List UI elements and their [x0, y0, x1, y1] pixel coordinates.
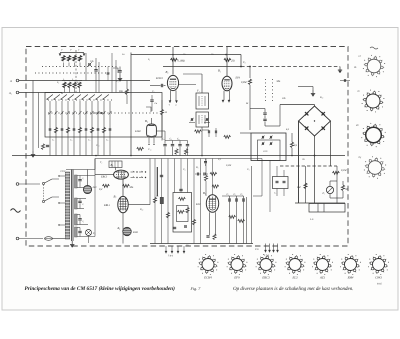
switch SK2b	[42, 200, 44, 202]
ground switch	[32, 151, 34, 155]
wire AF ladder	[154, 159, 156, 244]
resistor R13	[66, 127, 69, 133]
node target arrows row1	[131, 171, 135, 172]
wire lamp branch right	[336, 166, 338, 203]
svg-text:ECH4: ECH4	[155, 77, 163, 80]
capacitor block C26/C27	[273, 177, 289, 189]
svg-text:C₆: C₆	[162, 138, 165, 141]
switch SK2a	[42, 182, 44, 184]
inductor L5 bracket	[113, 68, 118, 73]
wire cap cluster rail	[165, 140, 188, 142]
ground aux	[312, 87, 314, 91]
diode D4	[322, 126, 325, 129]
wire arrow tap	[59, 54, 61, 56]
switch wiper 3	[61, 95, 67, 100]
capacitor C12	[61, 128, 64, 130]
socket diagram V4	[368, 161, 382, 175]
capacitor C9	[119, 67, 121, 71]
socket base EBC3	[260, 259, 272, 271]
svg-text:L.S.: L.S.	[309, 218, 314, 221]
switch wiper 5	[75, 95, 81, 100]
inductor L6 bracket	[146, 107, 151, 112]
svg-text:B₇: B₇	[114, 195, 117, 199]
inductor S6	[63, 82, 66, 88]
fuse V1	[45, 237, 53, 241]
capacitor C40	[164, 141, 166, 144]
wire vertical feeder	[85, 53, 87, 81]
wire det elbow	[265, 125, 280, 127]
wire AVC rail	[163, 66, 241, 68]
wire det right links	[261, 159, 263, 197]
svg-text:B₁₀: B₁₀	[320, 96, 323, 99]
svg-text:C₄: C₄	[116, 80, 119, 83]
socket base EL3	[289, 259, 301, 271]
wire B1 pin 2	[175, 91, 177, 101]
capacitor C52 electrolytic	[160, 197, 163, 203]
svg-text:C₁₂: C₁₂	[148, 148, 152, 151]
socket diagram V2	[366, 94, 380, 108]
wire oscillator box left	[130, 53, 132, 156]
resistor R22	[137, 147, 144, 150]
capacitor C25	[243, 196, 245, 203]
socket base EF9	[231, 259, 243, 271]
svg-text:B₆: B₆	[111, 163, 114, 167]
transformer T primary	[65, 172, 69, 239]
resistor R7	[304, 183, 307, 189]
socket eye B8	[123, 227, 131, 235]
resistor R18	[229, 215, 236, 218]
svg-text:C₁: C₁	[52, 139, 54, 142]
wire B6 left	[95, 174, 114, 176]
socket base EM4	[345, 259, 357, 271]
wire drop to band switch	[61, 93, 63, 95]
wire secondary common	[94, 175, 96, 237]
capacitor C32	[78, 218, 81, 220]
capacitor C18	[97, 128, 100, 130]
resistor R32	[210, 172, 217, 175]
capacitor C18	[214, 130, 216, 133]
resistor R21	[224, 135, 231, 138]
svg-text:C₂: C₂	[227, 193, 230, 196]
svg-text:C₄: C₄	[241, 193, 244, 196]
switch wiper 7	[89, 95, 95, 100]
wire B1 anode feed	[172, 47, 174, 75]
wire bridge top stub	[314, 105, 316, 107]
wire B5 pin 1	[148, 138, 150, 143]
switch wiper 8	[96, 95, 102, 100]
wire S top rail	[62, 80, 82, 82]
wire fuse out	[53, 238, 66, 240]
svg-text:C₈: C₈	[82, 220, 84, 223]
rectifier bridge	[299, 106, 331, 136]
capacitor C20	[160, 174, 163, 176]
wire feeder 99	[98, 62, 100, 93]
capacitor C53	[196, 173, 198, 176]
wire antenna lead	[19, 80, 150, 82]
switch contact 2	[55, 101, 57, 156]
wire aux lead	[298, 86, 313, 88]
wire bottom rail right	[295, 202, 345, 204]
svg-text:EAB2: EAB2	[134, 130, 142, 133]
socket diagram V3	[366, 127, 382, 143]
inductor S7	[68, 82, 71, 88]
wire cap drops	[229, 203, 231, 244]
capacitor C16	[85, 128, 88, 130]
capacitor C12	[263, 118, 266, 120]
switch contact 10	[103, 101, 105, 156]
wire coil top link	[60, 52, 84, 54]
svg-text:C₈: C₈	[177, 138, 180, 141]
switch contact 9	[97, 101, 99, 156]
wire earth lead	[19, 92, 62, 94]
capacitor C4	[46, 144, 49, 146]
IF can T1	[196, 93, 209, 109]
svg-text:C₆: C₆	[82, 177, 84, 180]
resistor R19	[238, 219, 245, 222]
node IF core dots	[265, 79, 267, 103]
trimmer C19b	[205, 118, 207, 121]
wire lamp branch left	[305, 166, 307, 203]
wire caps top link	[222, 195, 244, 197]
wire switch arrow	[93, 112, 103, 114]
resistor R19	[102, 127, 105, 133]
switch wiper 4	[68, 95, 74, 100]
svg-text:EF9: EF9	[233, 276, 240, 280]
svg-text:A₂: A₂	[8, 92, 12, 95]
resistor R33	[212, 185, 219, 188]
wire primary taps	[59, 175, 65, 177]
svg-text:Fig. 7: Fig. 7	[190, 286, 202, 291]
socket base ECH4	[202, 259, 214, 271]
resistor R11	[54, 127, 57, 133]
wire B7 bottom	[122, 213, 124, 244]
capacitor C50	[340, 80, 350, 82]
wire B5 top	[151, 118, 153, 124]
wire right AF verticals	[246, 197, 248, 244]
switch contact 11	[109, 101, 111, 156]
resistor R15	[78, 127, 81, 133]
svg-text:C₈: C₈	[183, 168, 186, 171]
wire B5 out	[157, 130, 166, 132]
trimmer C14	[269, 136, 271, 139]
switch contact 3	[61, 101, 63, 156]
inductor L3	[73, 56, 76, 62]
trimmer C2	[88, 63, 90, 66]
lamp F1	[326, 186, 333, 193]
capacitor C33	[78, 230, 81, 232]
wire tuning link dashed	[75, 50, 77, 93]
filter box inner	[177, 206, 189, 222]
svg-text:P.U.: P.U.	[254, 248, 260, 251]
inductor S9	[78, 82, 81, 88]
svg-text:0,1: 0,1	[218, 158, 221, 161]
svg-text:EL3: EL3	[291, 276, 298, 280]
capacitor C19c	[205, 159, 207, 161]
svg-text:A: A	[9, 80, 12, 83]
capacitor C31	[79, 199, 81, 201]
svg-text:220V: 220V	[60, 170, 66, 173]
node main HT bus	[12, 155, 345, 157]
resistor R13	[123, 184, 130, 187]
inductor box above B6	[109, 161, 122, 168]
svg-text:24': 24'	[358, 55, 362, 58]
capacitor C42	[179, 141, 181, 144]
transformer secondary 1	[75, 175, 78, 188]
wire B2 pin 2	[229, 91, 231, 100]
wire link	[253, 195, 262, 197]
capacitor C43	[187, 141, 189, 144]
wire S drops	[64, 87, 66, 93]
node junction det	[249, 66, 251, 68]
wire mains 1	[19, 183, 40, 185]
inductor L2	[67, 56, 70, 62]
wire B9 pins	[209, 212, 211, 235]
switch contact 4	[67, 101, 69, 156]
mains symbol	[11, 209, 21, 213]
inductor L1	[62, 56, 65, 62]
terminal mains 1	[16, 183, 19, 186]
svg-text:C₃: C₃	[88, 139, 90, 142]
wire secondary outs	[77, 175, 95, 177]
resistor R6	[290, 142, 293, 148]
svg-text:C₆: C₆	[152, 90, 155, 93]
wire box stub	[115, 168, 117, 171]
switch contact 5	[73, 101, 75, 156]
svg-text:Op diverse plaatsen is de scha: Op diverse plaatsen is de schakeling met…	[233, 286, 354, 292]
capacitor C11	[264, 109, 266, 113]
wire T1 feed	[201, 74, 203, 93]
svg-text:C₂: C₂	[70, 139, 72, 142]
diode D3	[305, 126, 308, 129]
svg-text:T₂: T₂	[100, 161, 102, 164]
svg-text:C₅: C₅	[274, 192, 276, 195]
node junction r2	[225, 54, 227, 56]
filter box outer	[173, 193, 192, 233]
resistor R17	[192, 219, 195, 225]
node dotted row lower	[35, 72, 112, 74]
svg-text:C₇: C₇	[82, 203, 84, 206]
wire to rectifier top	[280, 104, 315, 106]
svg-text:R₂₀: R₂₀	[139, 208, 143, 211]
tube B10 AZ1	[83, 185, 91, 193]
resistor R1	[171, 58, 178, 61]
ground C9	[119, 75, 121, 79]
wire B2 pin 1	[223, 91, 225, 100]
terminal strip pickup	[265, 244, 267, 251]
inductor L4	[78, 56, 81, 62]
switch contact 7	[85, 101, 87, 156]
capacitor C17	[202, 129, 209, 131]
capacitor C51	[184, 225, 187, 227]
wire AVC chain line	[241, 66, 340, 68]
wire mains 2	[19, 238, 43, 240]
capacitor C24	[236, 196, 238, 203]
svg-text:0,5M: 0,5M	[241, 81, 247, 84]
resistor R2	[224, 58, 231, 61]
svg-text:B₉: B₉	[203, 191, 206, 195]
trimmer C16	[269, 142, 271, 145]
svg-text:EBC3: EBC3	[100, 176, 108, 179]
wire B2 anode feed	[226, 47, 228, 76]
svg-text:EBL1: EBL1	[103, 204, 111, 207]
terminal mains 2	[16, 237, 19, 240]
switch wiper 1	[47, 95, 53, 100]
svg-text:0,1MΩ: 0,1MΩ	[178, 60, 185, 63]
wire dial chain line	[280, 165, 337, 167]
svg-text:Principeschema van de CM 6517: Principeschema van de CM 6517 (kleine wi…	[25, 286, 176, 292]
svg-text:EM4: EM4	[347, 276, 354, 280]
svg-text:EL3: EL3	[195, 203, 201, 206]
wire bridge right drop	[330, 121, 332, 166]
svg-text:0,5M: 0,5M	[226, 164, 232, 167]
resistor R23	[204, 175, 207, 181]
resistor R12	[103, 184, 110, 187]
svg-text:EBC3: EBC3	[261, 276, 270, 280]
resistor R9	[341, 185, 344, 191]
wire T2 out	[201, 127, 203, 156]
svg-text:C₇: C₇	[170, 138, 173, 141]
node dotted contacts row 2	[48, 112, 158, 114]
svg-text:R₉: R₉	[195, 166, 199, 169]
svg-text:C₃: C₃	[234, 193, 237, 196]
svg-text:S₂: S₂	[57, 81, 59, 84]
svg-text:F₁: F₁	[322, 192, 326, 195]
svg-text:C₁₄: C₁₄	[96, 144, 100, 147]
resistor R3	[41, 144, 44, 150]
switch contact 6	[79, 101, 81, 156]
svg-text:AZ1: AZ1	[92, 186, 97, 189]
wire arrow tap 2	[83, 54, 85, 56]
node dotted contacts row	[48, 99, 112, 101]
transformer secondary 4	[75, 227, 78, 237]
diode D1	[305, 112, 308, 115]
wire bridge left drop	[298, 121, 300, 203]
svg-text:Gr: Gr	[186, 244, 189, 247]
capacitor C3	[95, 58, 97, 70]
svg-text:C₉: C₉	[247, 168, 250, 171]
svg-text:C₄: C₄	[106, 139, 108, 142]
wire B1 pin 1	[170, 91, 172, 101]
svg-text:F₁: F₁	[196, 90, 200, 93]
svg-text:B₁: B₁	[166, 70, 169, 74]
trimmer C19a	[190, 118, 192, 121]
svg-text:B₂: B₂	[218, 69, 221, 73]
diode D2	[322, 112, 325, 115]
svg-text:C843: C843	[375, 276, 382, 280]
resistor R27	[195, 130, 202, 133]
node dotted row upper	[42, 66, 118, 68]
chassis outline (dashed)	[26, 47, 348, 247]
svg-text:B₅: B₅	[145, 119, 148, 123]
svg-text:S₄: S₄	[77, 81, 79, 84]
switch wiper 6	[82, 95, 88, 100]
svg-text:0,1M: 0,1M	[341, 169, 347, 172]
band switch box SK1	[45, 93, 162, 138]
resistor R25	[175, 149, 178, 155]
resistor R34 cathode	[213, 234, 216, 240]
tube B2 EF9	[222, 76, 232, 91]
inductor S8	[73, 82, 76, 88]
resistor R24	[161, 100, 163, 109]
wire switch link	[43, 185, 45, 201]
svg-text:2b': 2b'	[357, 90, 361, 93]
capacitor C23	[229, 196, 231, 203]
capacitor C21	[179, 188, 182, 190]
wire ladder heavy segment	[156, 167, 158, 196]
lamp L1 dial	[86, 230, 92, 236]
svg-text:AZ1: AZ1	[319, 276, 326, 280]
capacitor C20	[109, 128, 112, 130]
wire det link	[250, 108, 265, 110]
terminal antenna A1	[16, 79, 19, 82]
resistor R8	[333, 171, 340, 174]
svg-text:5ᵃ: 5ᵃ	[61, 49, 63, 52]
wire left stem 2	[38, 93, 40, 149]
capacitor C41	[172, 141, 174, 144]
switch wiper 2	[54, 95, 60, 100]
capacitor C22	[173, 226, 176, 228]
trimmer C15	[261, 142, 263, 145]
IF can T2	[196, 112, 209, 127]
output transformer box	[251, 133, 286, 161]
capacitor C10	[49, 128, 52, 130]
tube B5 EAB2	[147, 124, 157, 137]
svg-text:B₈: B₈	[118, 227, 121, 230]
terminal antenna A2	[16, 91, 19, 94]
resistor R17	[90, 127, 93, 133]
svg-text:8b': 8b'	[356, 124, 360, 127]
trimmer C13	[261, 136, 263, 139]
svg-text:1 2 3: 1 2 3	[264, 254, 270, 257]
wire lamp drop	[88, 236, 90, 244]
transformer secondary 2	[75, 198, 78, 209]
ground AVC	[339, 67, 341, 71]
transformer core	[70, 170, 72, 242]
capacitor Ca	[151, 95, 153, 99]
wire lamp loop	[329, 181, 331, 186]
svg-text:EF9: EF9	[235, 77, 241, 80]
wire bridge bottom drop	[314, 136, 316, 203]
svg-text:8045: 8045	[377, 283, 383, 286]
socket base C843	[373, 259, 385, 271]
terminal strip gram	[165, 246, 167, 251]
wire B1 grid out	[179, 84, 196, 86]
resistor R30	[179, 197, 186, 200]
wire box feed	[240, 132, 251, 134]
transformer secondary 3	[75, 214, 78, 225]
socket base AZ1	[317, 259, 329, 271]
wire B9 grid feed	[212, 159, 214, 195]
svg-text:S₆: S₆	[148, 58, 150, 61]
switch wiper 9	[103, 95, 109, 100]
capacitor C54	[203, 173, 205, 176]
svg-text:Br: Br	[246, 102, 249, 105]
capacitor C55 cathode	[206, 235, 209, 237]
node junction AVC	[240, 66, 242, 68]
wire right column	[240, 55, 242, 67]
svg-text:7 8 9: 7 8 9	[168, 255, 174, 258]
wire left switch stem	[32, 81, 34, 152]
wire rectifier top	[66, 169, 95, 171]
svg-text:EM4: EM4	[132, 231, 138, 234]
ground transformer	[71, 241, 73, 245]
node target arrows row2	[131, 177, 135, 178]
switch contact 1	[49, 101, 51, 156]
capacitor C30	[79, 176, 81, 179]
resistor R5	[249, 67, 251, 79]
speaker box	[309, 204, 345, 213]
wire oscillator top rail	[131, 54, 241, 56]
